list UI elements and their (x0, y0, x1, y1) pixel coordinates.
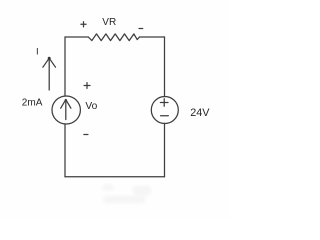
current source arrow tip dot (65, 99, 67, 101)
wire left side top (64, 37, 66, 96)
node dot at arrow I tip (48, 57, 51, 60)
wire top-right lead (140, 36, 165, 38)
plus sign of Vo (84, 83, 90, 89)
svg-text:VR: VR (102, 17, 116, 28)
wire bottom (65, 176, 165, 178)
svg-text:24V: 24V (190, 107, 210, 119)
svg-text:Vo: Vo (85, 101, 97, 112)
current arrow I (outside loop) (48, 59, 50, 90)
minus sign of VR (139, 28, 143, 30)
current source I1 circle (52, 96, 80, 124)
plus sign of VR (81, 22, 86, 27)
voltage source plus sign (160, 99, 168, 106)
voltage source V1 circle (151, 97, 178, 124)
svg-text:I: I (36, 47, 39, 58)
wire right side bottom (164, 123, 166, 176)
wire top-left lead (65, 36, 88, 38)
resistor R (VR) zigzag (88, 34, 139, 41)
minus sign of Vo (84, 134, 88, 136)
svg-text:2mA: 2mA (22, 98, 43, 109)
wire right side top (164, 37, 166, 97)
voltage source minus sign (161, 115, 169, 117)
wire left side bottom (64, 124, 66, 177)
current source arrow (65, 100, 67, 120)
faint watermark smudge (102, 185, 151, 203)
